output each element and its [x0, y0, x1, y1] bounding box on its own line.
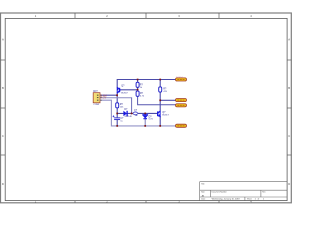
resistor R3 — [116, 103, 119, 108]
zone letters left — [2, 38, 4, 186]
transistor Q2 — [157, 111, 158, 116]
zone numbers bottom — [35, 200, 253, 204]
title block text — [201, 182, 265, 200]
svg-text:D: D — [2, 182, 4, 186]
svg-text:BC807: BC807 — [121, 93, 128, 95]
wire Q1 collector column — [116, 93, 118, 103]
capacitor C1 — [114, 116, 120, 119]
wire top rail VCC — [117, 80, 175, 88]
resistor R4 — [159, 87, 162, 92]
svg-text:D: D — [288, 182, 290, 186]
svg-text:C: C — [288, 134, 290, 138]
wire zener stubs — [144, 113, 146, 114]
sheet outer border — [1, 13, 292, 203]
pill pad P4 — [176, 124, 187, 127]
zone tick top 1 — [74, 13, 76, 18]
zone tick bottom 1 — [74, 201, 76, 203]
pill pad P2 — [176, 99, 187, 102]
zone letters right — [288, 38, 290, 186]
svg-text:Wednesday, January 10, 2018: Wednesday, January 10, 2018 — [212, 198, 241, 201]
wire diode row — [117, 112, 123, 114]
svg-text:Title: Title — [201, 182, 204, 185]
svg-text:B: B — [2, 86, 4, 90]
wire pill2 — [160, 99, 175, 101]
svg-text:1N4148: 1N4148 — [124, 116, 132, 118]
junction dots — [116, 79, 161, 127]
resistor R1 — [136, 82, 139, 87]
svg-text:A: A — [288, 38, 290, 42]
svg-text:4.2V: 4.2V — [101, 96, 107, 100]
title block — [200, 182, 287, 201]
wire pin3 ground run — [101, 100, 176, 126]
sheet inner border — [5, 18, 287, 200]
zone tick right 1 — [287, 59, 291, 61]
svg-text:Size: Size — [201, 192, 205, 194]
wire cap to ground rail — [116, 120, 118, 126]
zone tick right 2 — [287, 107, 291, 109]
wire right column — [159, 80, 161, 87]
zone tick bottom 3 — [218, 201, 220, 203]
zone tick left 3 — [1, 154, 6, 156]
svg-text:Sheet: Sheet — [247, 198, 252, 201]
wire pin1 to Q1 node — [101, 94, 118, 96]
svg-text:5.1V: 5.1V — [149, 119, 154, 121]
svg-text:Document Number: Document Number — [212, 191, 227, 194]
wire Q2 emitter to rail — [159, 117, 161, 126]
resistor R2 — [136, 91, 139, 96]
transistor Q1 — [119, 88, 120, 93]
svg-text:BC817: BC817 — [162, 114, 169, 116]
wire R2 bottom to pill3 — [138, 96, 176, 104]
zone tick bottom 2 — [145, 201, 147, 203]
zone numbers top — [35, 14, 253, 18]
svg-text:CON3: CON3 — [93, 104, 100, 106]
svg-text:CN?: CN? — [93, 91, 98, 93]
wire Q1 base — [120, 89, 138, 91]
zone tick left 1 — [1, 59, 6, 61]
svg-text:C: C — [2, 134, 4, 138]
zener D3 — [142, 114, 148, 116]
zone tick right 3 — [287, 154, 291, 156]
diode D1 — [123, 111, 127, 116]
wire R3 bottom to node — [116, 108, 118, 118]
fuse F1 — [133, 112, 137, 115]
svg-text:B: B — [288, 86, 290, 90]
connector CN1 — [93, 93, 100, 103]
svg-text:Rev: Rev — [262, 192, 265, 194]
zone tick left 2 — [1, 107, 6, 109]
pill pad P3 — [176, 104, 187, 107]
svg-text:Date:: Date: — [201, 198, 206, 201]
wire pin2 run — [101, 97, 133, 99]
pill pad P1 — [176, 78, 187, 81]
svg-text:A: A — [2, 38, 4, 42]
zone tick top 3 — [218, 13, 220, 18]
zone tick top 2 — [145, 13, 147, 18]
wire R1 stubs — [137, 80, 139, 83]
